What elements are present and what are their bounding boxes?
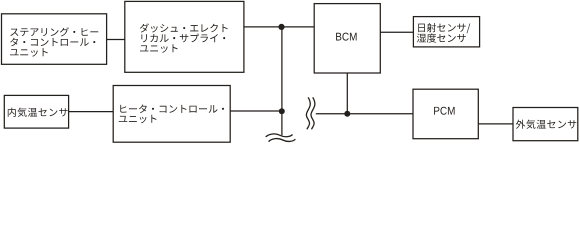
junction: dot heater wire to bus [279,108,285,114]
box: BCM [314,4,380,73]
label: ダッシュ・エレクトリカル・サプライ・ユニット [140,23,228,32]
box: in-vehicle temperature sensor [4,95,68,128]
junction: dot BCM branch on PCM wire [344,111,350,117]
wire: in-vehicle temp sensor to heater control unit [69,111,114,113]
box: ambient temperature sensor [513,108,578,141]
label: 外気温センサ [516,120,577,129]
wire: BCM to CAN bus junction [346,73,348,114]
box: steering heater control unit [2,14,107,65]
label: ヒータ・コントロール・ユニット [120,104,224,113]
wire: BCM to sun load / humidity sensor [380,31,413,33]
box: dash electrical supply unit [125,1,244,72]
wire: dash electrical supply unit to BCM [244,26,314,28]
label: PCM [434,107,454,115]
wire: steering heater unit to dash electrical supply unit [107,39,125,41]
box: heater control unit [113,86,230,143]
wire: heater control unit to bus [230,110,282,112]
wire: CAN bus to PCM [316,113,413,115]
wire: vertical CAN bus line [281,27,283,135]
box: PCM [413,89,478,139]
label: 日射センサ/湿度センサ [418,23,470,33]
break symbol: double wave at start of CAN wire to PCM [306,97,310,129]
wire: PCM to ambient temperature sensor [478,123,513,125]
break symbol: double wave at bottom of bus line [266,134,293,137]
label: ステアリング・ヒータ・コントロール・ユニット [10,27,98,36]
box: sun load sensor / humidity sensor [413,17,479,47]
label: 内気温センサ [8,108,68,117]
junction: dot on dash-BCM wire [278,24,284,30]
label: BCM [336,33,356,41]
